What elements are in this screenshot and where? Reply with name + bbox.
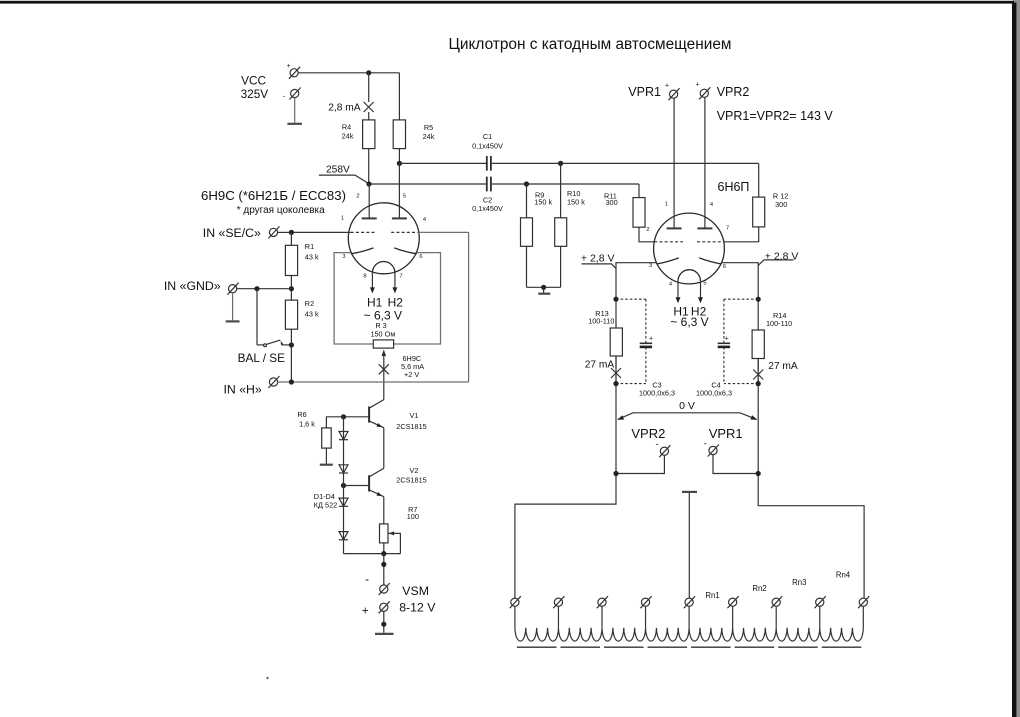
svg-text:150 k: 150 k [534,198,552,207]
svg-text:VPR1: VPR1 [628,85,661,99]
svg-text:1: 1 [341,216,344,222]
svg-text:6Н9С (*6Н21Б / ECC83): 6Н9С (*6Н21Б / ECC83) [201,188,346,203]
svg-text:Rn4: Rn4 [836,571,851,580]
svg-text:150 Ом: 150 Ом [370,329,395,338]
svg-text:325V: 325V [241,87,269,101]
svg-text:·: · [282,91,285,102]
svg-text:1,6 k: 1,6 k [299,420,315,429]
svg-text:IN «SE/C»: IN «SE/C» [203,226,261,240]
svg-text:-: - [704,438,707,448]
svg-text:+: + [286,63,290,70]
svg-text:5: 5 [403,194,406,200]
svg-text:1000,0x6,3: 1000,0x6,3 [639,388,675,397]
svg-text:C1: C1 [483,132,492,141]
svg-text:43 k: 43 k [305,253,319,262]
svg-text:100-110: 100-110 [588,316,614,325]
svg-text:* другая цоколевка: * другая цоколевка [237,205,325,216]
svg-text:H1: H1 [367,296,383,310]
svg-text:+ 2,8 V: + 2,8 V [581,253,615,265]
svg-text:IN «Н»: IN «Н» [224,383,262,397]
svg-text:R4: R4 [342,123,351,132]
svg-text:+: + [725,336,729,343]
svg-text:300: 300 [606,198,618,207]
svg-text:VPR1: VPR1 [709,426,743,441]
svg-text:100: 100 [407,512,419,521]
svg-text:C2: C2 [483,195,492,204]
svg-text:2CS1815: 2CS1815 [396,422,426,431]
svg-text:5: 5 [703,281,706,287]
svg-text:Rn1: Rn1 [705,591,719,600]
svg-text:0,1x450V: 0,1x450V [472,142,503,151]
svg-text:+: + [649,336,653,343]
svg-text:+ 2,8 V: + 2,8 V [765,251,799,263]
svg-text:IN «GND»: IN «GND» [164,279,221,293]
svg-text:VSM: VSM [402,584,429,598]
svg-text:27 mA: 27 mA [768,361,798,372]
svg-text:V1: V1 [410,411,419,420]
svg-text:2: 2 [356,194,359,200]
svg-text:~ 6,3 V: ~ 6,3 V [670,315,708,329]
svg-text:7: 7 [399,274,402,280]
svg-text:BAL / SE: BAL / SE [238,351,286,365]
svg-text:Циклотрон с катодным автосмеще: Циклотрон с катодным автосмещением [449,36,732,53]
svg-text:V2: V2 [410,466,419,475]
svg-text:27 mA: 27 mA [585,359,615,370]
svg-text:H2: H2 [388,296,404,310]
svg-text:2,8 mA: 2,8 mA [328,102,360,113]
svg-text:1: 1 [665,202,668,208]
svg-text:3: 3 [342,254,345,260]
svg-text:VCC: VCC [241,74,266,88]
svg-text:VPR2: VPR2 [717,85,750,99]
svg-text:2CS1815: 2CS1815 [396,475,426,484]
svg-text:24k: 24k [342,132,354,141]
svg-text:258V: 258V [326,164,350,175]
svg-text:0 V: 0 V [679,400,695,412]
svg-text:3: 3 [649,263,652,269]
svg-text:-: - [656,439,659,449]
svg-text:6: 6 [419,254,422,260]
svg-text:100-110: 100-110 [766,319,792,328]
svg-text:VPR2: VPR2 [631,426,665,441]
svg-text:43 k: 43 k [305,309,319,318]
svg-text:R2: R2 [305,299,314,308]
svg-text:Rn3: Rn3 [792,578,806,587]
svg-text:-: - [365,574,369,586]
svg-text:VPR1=VPR2= 143 V: VPR1=VPR2= 143 V [717,109,834,123]
svg-text:0,1x450V: 0,1x450V [472,204,503,213]
svg-text:R 12: R 12 [773,192,788,201]
svg-text:8: 8 [363,274,366,280]
svg-text:1000,0x6,3: 1000,0x6,3 [696,388,732,397]
svg-text:2: 2 [646,227,649,233]
svg-text:+2 V: +2 V [404,370,419,379]
svg-text:150 k: 150 k [567,198,585,207]
svg-text:+: + [362,606,369,618]
svg-text:7: 7 [726,226,729,232]
svg-text:Rn2: Rn2 [752,584,766,593]
svg-text:8-12 V: 8-12 V [399,600,436,614]
svg-text:КД 522: КД 522 [314,500,337,509]
svg-text:R5: R5 [424,123,433,132]
svg-text:6Н6П: 6Н6П [718,180,750,194]
svg-text:6: 6 [723,264,726,270]
svg-text:24k: 24k [423,132,435,141]
svg-text:300: 300 [775,200,787,209]
svg-text:R1: R1 [305,242,314,251]
svg-text:R6: R6 [297,410,306,419]
svg-text:+: + [665,83,669,90]
svg-text:+: + [695,82,699,89]
